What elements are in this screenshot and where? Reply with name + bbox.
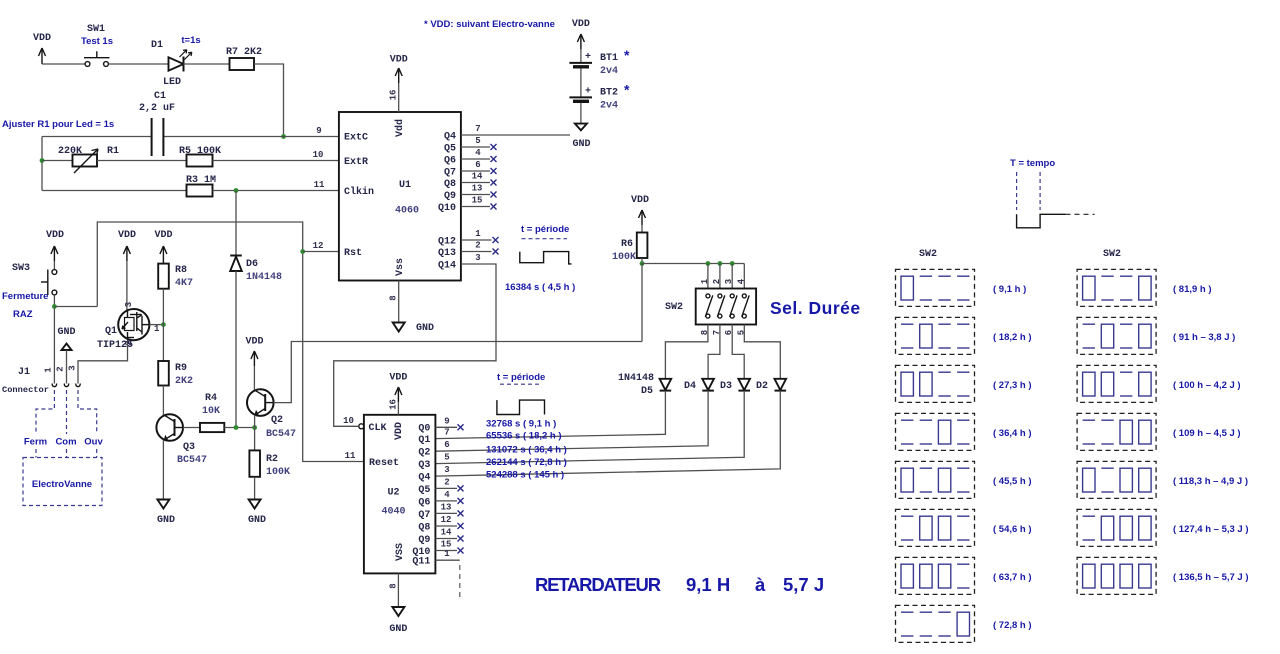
svg-text:2: 2 <box>712 279 722 284</box>
svg-text:Q4: Q4 <box>418 473 430 484</box>
svg-text:16: 16 <box>389 90 399 101</box>
wire dashed Com <box>66 390 68 434</box>
svg-text:100K: 100K <box>612 252 636 263</box>
node junction SW2 pin3 <box>730 261 735 266</box>
diode D2 <box>756 379 786 392</box>
svg-text:Vdd: Vdd <box>394 119 406 137</box>
svg-text:GND: GND <box>57 327 75 338</box>
svg-text:TIP125: TIP125 <box>97 340 133 351</box>
svg-text:VDD: VDD <box>118 230 136 241</box>
pin Q5 nc <box>435 477 463 491</box>
svg-text:ElectroVanne: ElectroVanne <box>32 479 92 490</box>
svg-text:Clkin: Clkin <box>344 186 374 198</box>
wire <box>97 160 187 162</box>
svg-text:Q6: Q6 <box>444 156 456 167</box>
svg-text:Q1: Q1 <box>105 326 117 337</box>
power VDD (SW3) <box>46 230 64 261</box>
node junction <box>281 134 286 139</box>
wire Q1 collector to J1 pin3 <box>78 339 128 384</box>
power VDD (Q2) <box>245 337 263 367</box>
resistor R4 10K <box>200 393 224 432</box>
svg-text:12: 12 <box>313 241 324 251</box>
svg-text:R7 2K2: R7 2K2 <box>226 47 262 58</box>
dip switch option R3 <box>1077 365 1240 402</box>
node junction SW2 pin1 <box>706 261 711 266</box>
pin Q5 nc <box>461 136 497 150</box>
svg-text:R8: R8 <box>175 265 187 276</box>
svg-text:Q5: Q5 <box>444 144 456 155</box>
wire junction to Rst riser <box>54 306 97 308</box>
svg-text:1: 1 <box>444 549 450 559</box>
wire VDD to Q2 collector <box>253 366 255 391</box>
svg-text:7: 7 <box>475 124 480 134</box>
node junction <box>161 322 166 327</box>
svg-text:65536 s ( 18,2 h ): 65536 s ( 18,2 h ) <box>486 430 562 441</box>
node junction D6 <box>234 425 239 430</box>
svg-text:Q5: Q5 <box>418 485 430 496</box>
svg-text:1: 1 <box>154 324 160 334</box>
wire R6 node down to Q2 base line <box>641 264 643 342</box>
wire Q1 base to R8/R9 <box>149 324 163 326</box>
wire D2 to Q4 row <box>435 391 780 477</box>
switch element 1 <box>705 294 713 318</box>
wire Q2 emitter to node <box>254 415 256 450</box>
svg-text:6: 6 <box>444 440 449 450</box>
svg-text:262144 s ( 72,8 h ): 262144 s ( 72,8 h ) <box>486 457 567 468</box>
pin Q6 nc <box>435 490 463 504</box>
ground (U1) <box>389 281 435 335</box>
svg-text:( 127,4 h – 5,3 J ): ( 127,4 h – 5,3 J ) <box>1173 524 1249 535</box>
svg-text:2: 2 <box>56 366 66 371</box>
svg-text:10: 10 <box>313 150 324 160</box>
svg-text:U1: U1 <box>399 180 411 191</box>
svg-text:R5 100K: R5 100K <box>179 146 221 157</box>
pin Q8 nc <box>435 515 463 529</box>
svg-text:( 109 h – 4,5 J ): ( 109 h – 4,5 J ) <box>1173 428 1241 439</box>
dip switch SW2 <box>665 278 756 335</box>
node junction Rst <box>300 249 305 254</box>
connector J1 <box>2 365 80 395</box>
svg-text:VDD: VDD <box>245 337 263 348</box>
svg-text:D5: D5 <box>641 386 653 397</box>
power VDD (R6) <box>631 195 649 233</box>
svg-text:D1: D1 <box>151 40 163 51</box>
svg-text:( 27,3 h ): ( 27,3 h ) <box>993 380 1032 391</box>
svg-text:Com: Com <box>55 437 76 448</box>
svg-text:( 100 h – 4,2 J ): ( 100 h – 4,2 J ) <box>1173 380 1241 391</box>
svg-text:131072 s ( 36,4 h ): 131072 s ( 36,4 h ) <box>486 444 567 455</box>
svg-text:VDD: VDD <box>631 195 649 206</box>
svg-text:BT2: BT2 <box>600 88 618 99</box>
diode D6 1N4148 <box>230 191 282 428</box>
svg-text:J1: J1 <box>18 367 30 378</box>
wire R8 to R9 <box>162 289 164 361</box>
dip switch option L5 <box>896 461 1032 498</box>
dip switch option R1 <box>1077 269 1211 306</box>
svg-text:SW2: SW2 <box>665 302 683 313</box>
wire to Clkin <box>213 190 340 192</box>
svg-text:Q9: Q9 <box>418 535 430 546</box>
wire dashed stubs <box>35 449 37 458</box>
wire <box>109 63 169 65</box>
node junction SW2 pin2 <box>718 261 723 266</box>
svg-text:Fermeture: Fermeture <box>2 291 48 302</box>
resistor R3 1M <box>186 175 216 197</box>
pin Q7 nc <box>435 502 463 516</box>
svg-text:32768 s ( 9,1 h ): 32768 s ( 9,1 h ) <box>486 418 556 429</box>
svg-text:3: 3 <box>68 365 78 370</box>
svg-text:ExtC: ExtC <box>344 133 368 144</box>
wire <box>254 64 284 137</box>
LED D1 <box>151 35 201 88</box>
pin Q6 nc <box>461 148 497 162</box>
resistor R6 100K <box>612 233 647 264</box>
svg-text:R6: R6 <box>621 239 633 250</box>
svg-text:Ferm: Ferm <box>24 437 47 448</box>
dip switch option R5 <box>1077 461 1248 498</box>
svg-text:VDD: VDD <box>389 373 407 384</box>
svg-text:11: 11 <box>314 180 325 190</box>
dip switch option L3 <box>896 365 1032 402</box>
pin Q0 nc <box>435 416 463 430</box>
svg-text:C1: C1 <box>154 91 166 102</box>
wire <box>42 63 85 65</box>
wire SW2 pin7 to D4 <box>708 325 720 379</box>
svg-text:RAZ: RAZ <box>13 309 33 320</box>
wire rail2 <box>42 160 73 162</box>
transistor Q3 BC547 <box>156 414 207 466</box>
diode D5 1N4148 <box>618 373 671 397</box>
switch element 2 <box>717 294 725 318</box>
svg-text:Q12: Q12 <box>438 237 456 248</box>
power VDD (U2) <box>389 373 408 415</box>
svg-text:( 91 h – 3,8 J ): ( 91 h – 3,8 J ) <box>1173 332 1235 343</box>
svg-text:13: 13 <box>441 502 452 512</box>
svg-text:Sel. Durée: Sel. Durée <box>770 298 861 318</box>
svg-text:Q8: Q8 <box>418 522 430 533</box>
svg-text:2K2: 2K2 <box>175 376 193 387</box>
wire VDD to Q1 <box>126 261 128 310</box>
svg-text:BC547: BC547 <box>177 455 207 466</box>
svg-text:4040: 4040 <box>381 507 405 518</box>
svg-text:D3: D3 <box>720 381 732 392</box>
dip switch option L6 <box>896 509 1032 546</box>
svg-text:GND: GND <box>389 624 407 635</box>
annotation t=periode U1 <box>520 224 572 264</box>
svg-text:R4: R4 <box>205 393 217 404</box>
wire Rst to U1 <box>303 251 339 253</box>
svg-text:Test 1s: Test 1s <box>81 36 113 47</box>
resistor R8 4K7 <box>158 264 193 289</box>
pin Q9 nc <box>435 528 463 542</box>
svg-text:t=1s: t=1s <box>181 35 200 46</box>
svg-text:Q7: Q7 <box>444 168 456 179</box>
wire dashed Ferm <box>36 390 54 434</box>
svg-text:9: 9 <box>316 126 321 136</box>
wire SW2 pin6 to D3 <box>732 325 744 379</box>
potentiometer R1 220K <box>58 146 119 173</box>
resistor R9 2K2 <box>158 361 193 387</box>
power VDD (R8) <box>154 230 172 264</box>
svg-text:+: + <box>585 52 591 63</box>
svg-text:GND: GND <box>572 139 590 150</box>
svg-text:R1: R1 <box>107 146 119 157</box>
svg-text:Q4: Q4 <box>444 132 456 143</box>
pin Q13 nc <box>461 241 499 255</box>
svg-text:Ajuster R1 pour Led = 1s: Ajuster R1 pour Led = 1s <box>2 119 114 130</box>
svg-text:Ouv: Ouv <box>84 437 103 448</box>
node junction <box>52 304 57 309</box>
power VDD (battery) <box>572 19 590 63</box>
svg-text:VDD: VDD <box>154 230 172 241</box>
wire left vertical <box>41 137 43 191</box>
svg-text:Q3: Q3 <box>418 460 430 471</box>
wire top rail to ExtC <box>42 136 151 138</box>
wire D4 to Q2 row <box>435 391 708 452</box>
svg-text:R3 1M: R3 1M <box>186 175 216 186</box>
svg-text:10: 10 <box>343 416 354 426</box>
svg-text:t = période: t = période <box>521 224 569 235</box>
pin Q10 nc <box>435 540 463 554</box>
svg-text:( 63,7 h ): ( 63,7 h ) <box>993 572 1032 583</box>
IC U1 4060 <box>339 112 461 281</box>
svg-text:Q2: Q2 <box>271 415 283 426</box>
dip switch option R4 <box>1077 413 1240 450</box>
wire R6 node to SW2 pins <box>642 263 744 265</box>
wire R9 to Q3 <box>162 386 164 415</box>
svg-text:Vss: Vss <box>395 258 406 276</box>
resistor R7 2K2 <box>226 47 262 70</box>
svg-text:( 18,2 h ): ( 18,2 h ) <box>993 332 1032 343</box>
svg-text:+: + <box>585 87 591 98</box>
svg-text:4K7: 4K7 <box>175 278 193 289</box>
svg-text:t = période: t = période <box>497 372 545 383</box>
svg-text:15: 15 <box>472 196 483 206</box>
svg-text:Connector: Connector <box>2 385 49 395</box>
svg-text:524288 s ( 145 h ): 524288 s ( 145 h ) <box>486 470 564 481</box>
IC U2 4040 <box>359 415 436 574</box>
svg-text:8: 8 <box>389 295 399 300</box>
svg-text:ExtR: ExtR <box>344 157 368 168</box>
power VDD (U1) <box>389 55 408 113</box>
svg-text:9,1 H: 9,1 H <box>686 574 730 595</box>
svg-text:VDD: VDD <box>394 422 405 440</box>
svg-text:1N4148: 1N4148 <box>618 373 654 384</box>
svg-text:5: 5 <box>475 136 480 146</box>
svg-text:Q0: Q0 <box>418 424 430 435</box>
svg-text:( 36,4 h ): ( 36,4 h ) <box>993 428 1032 439</box>
switch SW3 Fermeture RAZ <box>2 261 57 320</box>
svg-text:1N4148: 1N4148 <box>246 272 282 283</box>
battery BT2 2v4 <box>569 82 630 124</box>
node junction R6 <box>640 261 645 266</box>
dip switch option L4 <box>896 413 1032 450</box>
ground (R2) <box>248 500 266 527</box>
svg-text:100K: 100K <box>266 467 290 478</box>
svg-text:6: 6 <box>475 160 480 170</box>
svg-text:( 45,5 h ): ( 45,5 h ) <box>993 476 1032 487</box>
switch element 4 <box>742 294 750 318</box>
dip switch option L8 <box>896 605 1032 642</box>
svg-text:R9: R9 <box>175 363 187 374</box>
svg-text:D2: D2 <box>756 381 768 392</box>
svg-text:2,2 uF: 2,2 uF <box>139 103 175 114</box>
svg-text:1: 1 <box>475 229 481 239</box>
svg-text:4: 4 <box>444 490 450 500</box>
svg-text:GND: GND <box>157 515 175 526</box>
svg-text:( 54,6 h ): ( 54,6 h ) <box>993 524 1032 535</box>
svg-text:16384 s ( 4,5 h ): 16384 s ( 4,5 h ) <box>505 282 575 293</box>
wire dashed Ouv <box>78 390 97 434</box>
svg-text:BT1: BT1 <box>600 53 618 64</box>
wire SW3 to J1 pin1 <box>53 295 55 384</box>
diode D4 <box>684 379 714 392</box>
svg-text:R2: R2 <box>266 454 278 465</box>
svg-text:3: 3 <box>124 302 134 307</box>
wire Q3 base to R4 <box>183 427 200 429</box>
pin Q12 nc <box>461 229 499 243</box>
svg-text:SW1: SW1 <box>87 24 105 35</box>
svg-text:LED: LED <box>163 77 181 88</box>
battery BT1 2v4 <box>569 47 630 97</box>
svg-text:3: 3 <box>444 465 449 475</box>
svg-text:* VDD: suivant Electro-vanne: * VDD: suivant Electro-vanne <box>424 19 555 30</box>
svg-text:14: 14 <box>441 528 452 538</box>
svg-text:220K: 220K <box>58 146 82 157</box>
annotation t=periode U2 <box>497 372 545 415</box>
ground (J1 pin2) <box>57 327 75 384</box>
svg-text:D4: D4 <box>684 381 696 392</box>
svg-text:1: 1 <box>44 367 54 373</box>
diode D3 <box>720 379 750 392</box>
svg-text:SW2: SW2 <box>1103 249 1121 260</box>
wire R4 to node <box>224 427 254 429</box>
svg-text:Reset: Reset <box>369 458 399 469</box>
svg-text:Q14: Q14 <box>438 261 456 272</box>
wire rail3 <box>42 190 187 192</box>
svg-text:4: 4 <box>475 148 481 158</box>
wire Q4 pin7 <box>461 134 570 136</box>
annotation T = tempo <box>1010 158 1095 228</box>
wire <box>184 63 230 65</box>
ground (U2) <box>389 573 408 635</box>
resistor R2 100K <box>249 450 290 478</box>
svg-text:( 72,8 h ): ( 72,8 h ) <box>993 620 1032 631</box>
dip switch option R6 <box>1077 509 1248 546</box>
svg-text:VDD: VDD <box>572 19 590 30</box>
pin Q9 nc <box>461 184 497 198</box>
svg-text:3: 3 <box>724 279 734 284</box>
svg-text:VDD: VDD <box>33 33 51 44</box>
pin Q10 nc <box>461 196 497 210</box>
svg-text:RETARDATEUR: RETARDATEUR <box>535 574 661 595</box>
svg-text:( 136,5 h – 5,7 J ): ( 136,5 h – 5,7 J ) <box>1173 572 1249 583</box>
svg-text:3: 3 <box>475 253 480 263</box>
svg-text:5: 5 <box>444 453 449 463</box>
svg-text:2: 2 <box>444 477 449 487</box>
ground (battery) <box>572 124 590 150</box>
dip switch option R2 <box>1077 317 1235 354</box>
svg-text:12: 12 <box>441 515 452 525</box>
svg-text:Q2: Q2 <box>418 448 430 459</box>
svg-text:Q13: Q13 <box>438 248 456 259</box>
svg-text:VDD: VDD <box>46 230 64 241</box>
svg-text:( 9,1 h ): ( 9,1 h ) <box>993 284 1026 295</box>
dip switch option R7 <box>1077 557 1248 594</box>
svg-text:Q1: Q1 <box>418 435 430 446</box>
title RETARDATEUR <box>535 574 824 595</box>
svg-text:( 81,9 h ): ( 81,9 h ) <box>1173 284 1212 295</box>
svg-text:GND: GND <box>416 323 434 334</box>
switch SW1 Test 1s <box>81 24 113 66</box>
svg-text:Q7: Q7 <box>418 510 430 521</box>
svg-text:*: * <box>624 47 630 63</box>
wire R6 bottom <box>641 258 643 264</box>
transistor Q2 BC547 <box>247 389 296 440</box>
svg-text:5,7 J: 5,7 J <box>783 574 824 595</box>
svg-text:SW3: SW3 <box>12 263 30 274</box>
wire R2 to GND <box>254 477 256 499</box>
resistor R5 100K <box>179 146 221 167</box>
ground (Q3) <box>157 500 175 527</box>
svg-text:CLK: CLK <box>369 423 387 434</box>
svg-text:VSS: VSS <box>395 543 406 561</box>
power VDD (top-left) <box>33 33 51 64</box>
wire Q14 to U2 CLK <box>334 253 496 426</box>
svg-text:16: 16 <box>389 399 399 410</box>
svg-text:9: 9 <box>444 416 449 426</box>
svg-text:BC547: BC547 <box>266 429 296 440</box>
svg-text:7: 7 <box>444 428 449 438</box>
wire D3 to Q3 row <box>435 391 744 464</box>
svg-text:Q11: Q11 <box>412 557 430 568</box>
svg-text:2: 2 <box>475 241 480 251</box>
svg-text:Q8: Q8 <box>444 179 456 190</box>
svg-text:( 118,3 h – 4,9 J ): ( 118,3 h – 4,9 J ) <box>1173 476 1248 487</box>
svg-text:T = tempo: T = tempo <box>1010 158 1055 169</box>
svg-text:*: * <box>624 82 630 98</box>
node junction <box>234 188 239 193</box>
svg-text:SW2: SW2 <box>919 249 937 260</box>
wire Q3 emitter to GND <box>162 440 164 499</box>
svg-text:15: 15 <box>441 540 452 550</box>
svg-text:à: à <box>755 574 766 595</box>
dip switch option L7 <box>896 557 1032 594</box>
svg-text:VDD: VDD <box>390 55 408 66</box>
wire Rst net top <box>97 222 364 462</box>
svg-text:Q3: Q3 <box>183 442 195 453</box>
wire SW2 pin8 to D5 <box>665 325 708 379</box>
svg-text:2v4: 2v4 <box>600 66 618 77</box>
svg-text:Q9: Q9 <box>444 191 456 202</box>
wire to ExtR <box>213 160 340 162</box>
transistor Q1 TIP125 <box>97 302 160 351</box>
pin Q8 nc <box>461 172 497 186</box>
switch element 3 <box>730 294 738 318</box>
svg-text:1: 1 <box>700 278 710 284</box>
pin Q7 nc <box>461 160 497 174</box>
svg-text:10K: 10K <box>202 406 220 417</box>
wire SW2 pin5 to D2 <box>744 325 780 379</box>
svg-text:Q6: Q6 <box>418 497 430 508</box>
pin Q11 dashed <box>435 549 459 600</box>
dip switch option L2 <box>896 317 1032 354</box>
svg-text:D6: D6 <box>246 259 258 270</box>
power VDD (Q1) <box>118 230 136 261</box>
svg-text:14: 14 <box>472 172 483 182</box>
svg-text:13: 13 <box>472 184 483 194</box>
wire SW2 top stubs <box>707 264 709 289</box>
